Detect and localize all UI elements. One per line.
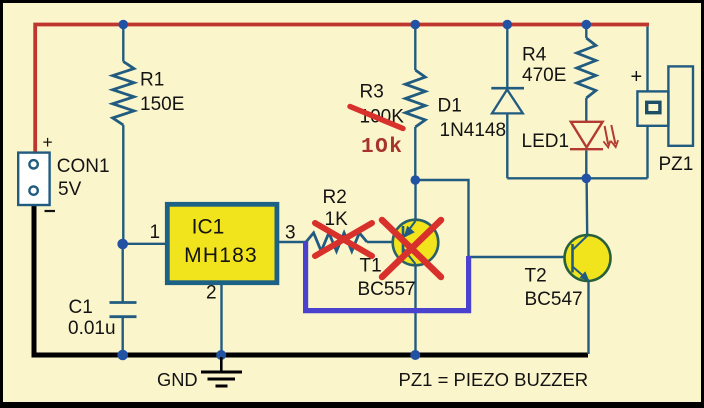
svg-text:R2: R2: [323, 187, 347, 208]
svg-text:R1: R1: [140, 70, 164, 91]
svg-text:D1: D1: [438, 96, 462, 117]
svg-text:+: +: [43, 132, 53, 152]
svg-text:3: 3: [285, 223, 296, 244]
svg-text:GND: GND: [157, 369, 198, 390]
svg-text:R3: R3: [360, 82, 384, 103]
svg-text:CON1: CON1: [57, 156, 110, 177]
svg-text:LED1: LED1: [522, 131, 570, 152]
svg-text:+: +: [631, 66, 643, 88]
svg-text:1N4148: 1N4148: [440, 120, 507, 141]
svg-text:2: 2: [206, 283, 217, 304]
svg-text:BC557: BC557: [358, 279, 416, 300]
svg-text:470E: 470E: [522, 65, 566, 86]
svg-text:1Ok: 1Ok: [361, 136, 403, 159]
svg-text:PZ1: PZ1: [659, 154, 694, 175]
svg-text:PZ1 = PIEZO BUZZER: PZ1 = PIEZO BUZZER: [399, 369, 589, 390]
svg-text:MH183: MH183: [184, 244, 258, 267]
svg-text:1K: 1K: [325, 209, 349, 230]
svg-text:1: 1: [150, 222, 161, 243]
svg-text:R4: R4: [522, 45, 547, 66]
svg-text:T2: T2: [525, 266, 547, 287]
svg-text:BC547: BC547: [525, 289, 583, 310]
svg-text:150E: 150E: [140, 94, 184, 115]
svg-text:5V: 5V: [58, 179, 82, 200]
svg-text:C1: C1: [69, 297, 93, 318]
svg-text:IC1: IC1: [192, 216, 225, 239]
svg-text:0.01u: 0.01u: [68, 318, 116, 339]
